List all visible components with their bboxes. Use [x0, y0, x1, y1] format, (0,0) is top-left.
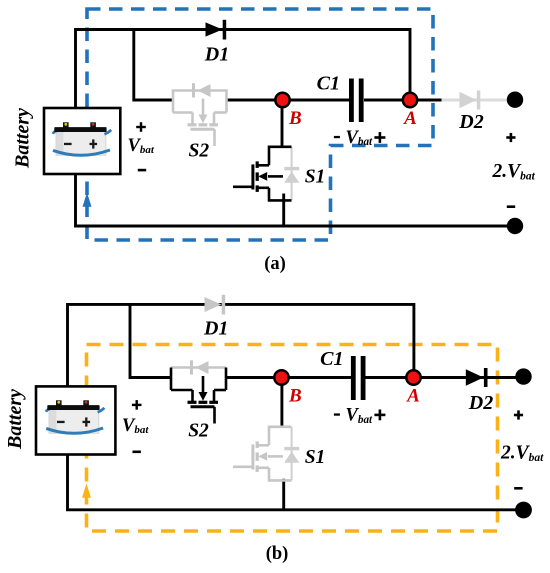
svg-text:S1: S1 — [305, 447, 326, 468]
wire battery top to D1 rail to node A (b) — [68, 304, 414, 386]
diode D1 (a) — [206, 20, 227, 40]
battery box (a) — [44, 108, 120, 174]
switch S1 (b) MOSFET off-state gray — [233, 427, 292, 481]
svg-text:(a): (a) — [264, 254, 286, 274]
wire C1 to node A to D2 to terminal (b) — [366, 376, 524, 379]
capacitor C1 (b) — [351, 356, 356, 400]
switch S2 (b) MOSFET on-state black — [171, 368, 226, 424]
wire feed to S2 (a) — [134, 28, 174, 100]
wire node B to S1 (b) — [280, 384, 283, 428]
wire C1 to node A to loop edge (a) — [364, 99, 442, 102]
svg-text:S2: S2 — [188, 421, 209, 442]
svg-text:S2: S2 — [188, 140, 209, 161]
battery icon (b) — [46, 400, 104, 433]
label - Vbat + under C1 (a) — [334, 136, 340, 138]
node B (b) — [274, 370, 288, 384]
output terminal bottom (b) — [515, 502, 532, 519]
svg-text:C1: C1 — [317, 73, 340, 95]
wire node B to S1 (a) — [281, 106, 284, 147]
svg-text:Battery: Battery — [4, 389, 26, 450]
wire battery top to D1 rail to node A (a) — [76, 30, 411, 109]
battery box (b) — [36, 386, 115, 454]
node A (a) — [403, 93, 417, 107]
capacitor C1 (a) — [349, 79, 354, 123]
wire S2 to C1 (a) — [227, 99, 351, 102]
svg-text:B: B — [288, 108, 302, 129]
label - Vbat + under C1 (b) — [334, 413, 340, 415]
wire S1 to bottom rail (b) — [282, 479, 285, 510]
svg-text:D2: D2 — [468, 392, 493, 414]
wire S1 to bottom rail (a) — [282, 194, 285, 227]
svg-text:B: B — [288, 386, 302, 407]
svg-text:D2: D2 — [458, 111, 483, 133]
diode D2 (b) active black — [466, 368, 488, 387]
wire feed to S2 (b) — [130, 303, 171, 378]
svg-text:D1: D1 — [203, 318, 228, 340]
svg-text:Battery: Battery — [11, 108, 33, 169]
label + Vbat - (b) — [132, 400, 142, 410]
diode D1 (b) gray inactive — [205, 295, 226, 315]
svg-text:S1: S1 — [305, 167, 326, 188]
output terminal top (b) — [515, 368, 531, 384]
body diode of S1 (b) gray — [284, 427, 299, 481]
switch S2 (a) MOSFET off-state gray — [173, 83, 227, 146]
current loop (a) blue dashed — [87, 9, 433, 240]
svg-text:D1: D1 — [204, 44, 229, 66]
loop arrow (b) — [82, 484, 91, 498]
battery icon (a) — [53, 122, 111, 155]
wire battery bottom + bottom rail (a) — [76, 174, 516, 226]
body diode of S2 (b) gray — [171, 360, 226, 374]
label + 2.Vbat - (b) — [514, 410, 523, 419]
node B (a) — [275, 93, 289, 107]
output terminal bottom (a) — [507, 218, 523, 234]
body diode of S1 (a) gray — [284, 147, 299, 201]
svg-text:(b): (b) — [266, 544, 289, 564]
diode D2 (a) gray inactive + gray wire — [442, 91, 508, 110]
switch S1 (a) MOSFET on-state black — [233, 147, 292, 201]
svg-text:A: A — [403, 108, 417, 129]
svg-text:C1: C1 — [320, 348, 343, 370]
wire battery bottom + bottom rail (b) — [68, 455, 524, 510]
label + Vbat - (a) — [136, 122, 146, 132]
svg-text:A: A — [406, 386, 420, 407]
output terminal top (a) — [507, 92, 523, 108]
label + 2.Vbat - (a) — [506, 133, 515, 142]
current loop (b) orange dashed — [87, 345, 498, 532]
node A (b) — [406, 370, 420, 384]
wire S2 to C1 (b) — [226, 376, 352, 379]
loop arrow (a) — [83, 193, 92, 207]
